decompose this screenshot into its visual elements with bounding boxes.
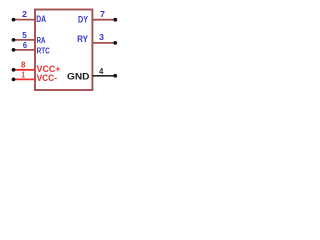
pin 7 endpoint dot	[113, 18, 117, 22]
svg-text:4: 4	[99, 66, 103, 76]
pin 2 wire	[14, 19, 35, 21]
pin 4 number	[99, 66, 103, 76]
pin 7 wire	[92, 19, 115, 21]
pin 6 wire	[14, 49, 35, 51]
pin 8 number	[21, 59, 26, 69]
pin 8 wire (power, highlighted red)	[14, 69, 35, 71]
svg-text:5: 5	[22, 30, 27, 40]
pin 5 wire	[14, 39, 35, 41]
pin name DY	[78, 14, 88, 24]
pin name VCC-	[37, 73, 57, 83]
svg-text:6: 6	[23, 40, 27, 50]
svg-text:8: 8	[21, 59, 26, 69]
pin 7 number	[100, 9, 105, 19]
pin name DA	[36, 14, 46, 24]
svg-text:DY: DY	[78, 14, 88, 24]
pin 4 wire (GND, dark)	[92, 75, 115, 77]
svg-text:VCC-: VCC-	[37, 73, 57, 83]
pin 5 endpoint dot	[12, 38, 16, 42]
svg-text:RA: RA	[37, 35, 46, 45]
pin name VCC+	[37, 64, 62, 74]
IC body outline	[35, 10, 92, 91]
svg-text:1: 1	[22, 69, 26, 79]
svg-text:7: 7	[100, 9, 105, 19]
pin 4 endpoint dot	[113, 74, 117, 78]
pin 2 endpoint dot	[12, 18, 16, 22]
svg-text:GND: GND	[67, 72, 90, 83]
svg-text:RTC: RTC	[37, 45, 51, 55]
svg-text:2: 2	[22, 9, 27, 19]
svg-text:RY: RY	[77, 34, 88, 44]
pin 1 wire (power, highlighted red)	[14, 78, 35, 80]
pin 3 endpoint dot	[113, 41, 117, 45]
pin 6 endpoint dot	[12, 48, 16, 52]
svg-text:DA: DA	[36, 14, 46, 24]
pin name RTC	[37, 45, 51, 55]
pin 8 endpoint dot	[12, 68, 16, 72]
pin 2 number	[22, 9, 27, 19]
pin name RY	[77, 34, 88, 44]
pin 5 number	[22, 30, 27, 40]
pin 6 number	[23, 40, 27, 50]
pin name GND	[67, 72, 90, 83]
pin 1 endpoint dot	[12, 78, 16, 82]
pin 3 wire	[92, 42, 115, 44]
pin 1 number	[22, 69, 26, 79]
pin name RA	[37, 35, 46, 45]
svg-text:3: 3	[99, 32, 104, 42]
pin 3 number	[99, 32, 104, 42]
